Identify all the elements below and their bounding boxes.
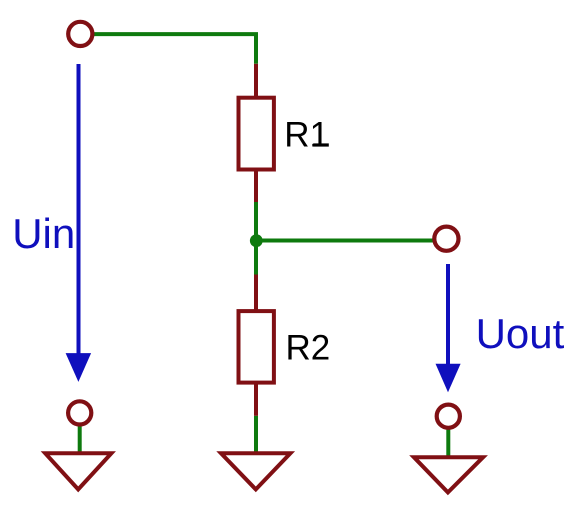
svg-text:Uin: Uin <box>12 210 75 257</box>
svg-text:R2: R2 <box>286 329 331 368</box>
svg-text:R1: R1 <box>284 116 329 155</box>
svg-text:Uout: Uout <box>476 310 565 357</box>
